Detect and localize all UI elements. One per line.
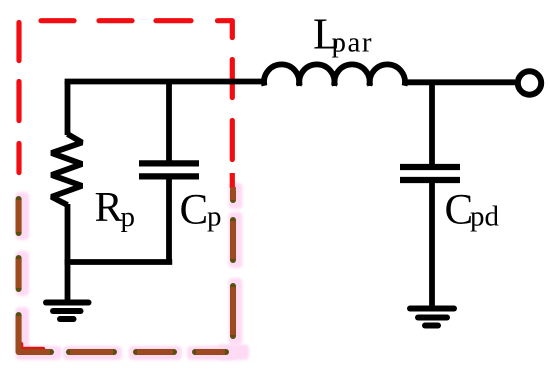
red under-corner at bottom-left of dashed box (21, 344, 43, 349)
wire: Cpd to right ground (429, 180, 435, 307)
red dashed box: upper-left edge (16, 23, 21, 173)
wire: down to left ground (65, 262, 71, 301)
wire: Cp branch lower (166, 176, 172, 262)
brown dashed box: lower-left edge (19, 199, 51, 352)
wire: Cp branch upper (166, 82, 172, 162)
svg-text:R: R (95, 185, 123, 231)
pink glow, lower-right dashed edge (217, 183, 249, 360)
inductor Lpar (4 humps) (264, 64, 405, 85)
wire: resistor bottom to bottom rail (65, 204, 71, 262)
svg-text:p: p (207, 201, 222, 233)
red dashed box: top edge (41, 21, 232, 38)
wire: top rail from Rp/Cp node to inductor (65, 79, 264, 85)
capacitor Cp (plates) (139, 163, 199, 176)
svg-text:par: par (332, 27, 374, 59)
node: junction of Lpar, Cpd and output (429, 82, 435, 164)
ground (left, below Rp) (46, 303, 89, 320)
brown dashed box: lower-right edge (230, 187, 236, 336)
red dashed box: upper-right edge (230, 60, 235, 189)
brown dashed box: bottom edge (69, 349, 226, 355)
pink glow, bottom dashed edge (63, 346, 236, 360)
wire: bottom rail from resistor to capacitor Cp (65, 259, 173, 265)
output terminal (open circle) (518, 71, 541, 94)
ground (right, below Cpd) (410, 309, 454, 326)
wire: inductor to output terminal (404, 79, 515, 85)
svg-text:pd: pd (470, 201, 500, 233)
capacitor Cpd (plates) (400, 167, 460, 180)
svg-text:C: C (445, 187, 474, 234)
pink glow, lower-left dashed edge (16, 192, 62, 360)
wire: left vertical from top rail down to resistor Rp (65, 82, 71, 136)
svg-text:p: p (121, 201, 136, 233)
resistor Rp (zigzag) (52, 134, 83, 205)
svg-text:C: C (180, 187, 209, 234)
